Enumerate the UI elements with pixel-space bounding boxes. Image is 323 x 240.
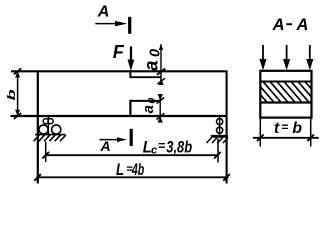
beam right edge / right extension line — [226, 71, 228, 184]
left support — [34, 117, 67, 142]
svg-text:t: t — [274, 120, 280, 137]
svg-text:A: A — [272, 16, 285, 34]
dimension a0 top — [157, 44, 165, 85]
svg-text:=: = — [281, 120, 288, 134]
dimension L — [34, 174, 230, 181]
label A bottom — [100, 138, 111, 154]
svg-text:b: b — [5, 89, 18, 100]
label t = b — [274, 120, 302, 137]
force F arrow — [128, 47, 135, 72]
svg-text:a: a — [142, 60, 163, 71]
svg-text:A: A — [97, 3, 110, 20]
section hatched band — [249, 81, 323, 104]
label a0 bottom — [140, 98, 158, 114]
dimension Lc — [42, 139, 220, 163]
svg-text:4b: 4b — [131, 159, 144, 178]
svg-text:A: A — [296, 16, 309, 34]
label F — [113, 42, 125, 62]
label Lc = 3,8b — [143, 138, 192, 157]
svg-text:3,8b: 3,8b — [166, 138, 192, 157]
label a0 top — [142, 49, 164, 71]
svg-text:A: A — [100, 138, 111, 154]
section outer box — [260, 71, 311, 118]
right support — [207, 117, 229, 144]
beam bottom edge — [11, 115, 227, 117]
section marker A top — [95, 17, 129, 34]
dimension t = b — [253, 118, 319, 147]
beam left edge / left extension line — [37, 71, 39, 184]
svg-text:b: b — [292, 120, 302, 137]
label b — [5, 89, 18, 100]
svg-text:=: = — [158, 138, 166, 153]
svg-text:c: c — [151, 145, 157, 157]
svg-text:0: 0 — [148, 49, 164, 57]
svg-text:F: F — [113, 42, 125, 62]
lower notch — [130, 100, 161, 116]
dimension b arrows and line — [14, 68, 21, 119]
label L = 4b — [116, 159, 144, 179]
upper notch — [130, 71, 162, 78]
section load arrows — [259, 45, 313, 70]
beam top edge — [11, 70, 227, 72]
dimension a0 bottom — [157, 94, 165, 123]
label A top — [97, 3, 110, 20]
svg-text:a: a — [140, 105, 157, 113]
svg-text:L: L — [116, 160, 124, 179]
label A - A — [272, 16, 309, 34]
section marker A bottom — [99, 129, 131, 146]
svg-text:0: 0 — [146, 98, 158, 104]
